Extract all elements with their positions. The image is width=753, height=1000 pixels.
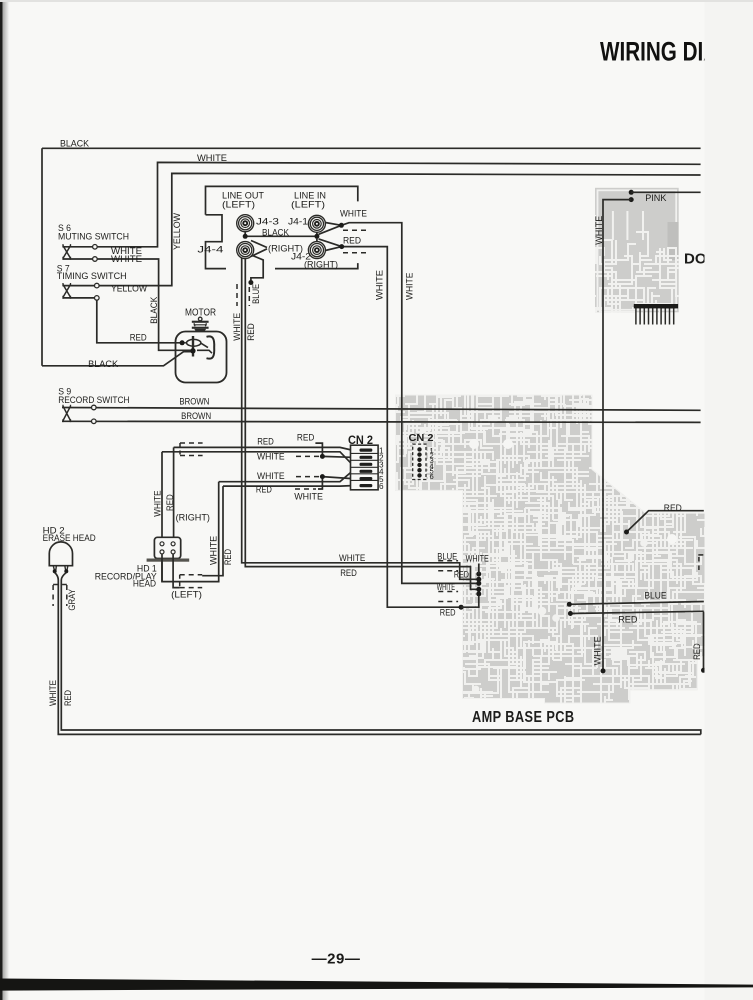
svg-text:YELLOW: YELLOW [172,213,182,250]
svg-text:J4-1: J4-1 [288,217,308,227]
svg-text:ERASE HEAD: ERASE HEAD [43,533,96,543]
svg-text:RED: RED [257,437,274,447]
svg-text:HEAD: HEAD [133,579,156,589]
svg-text:WHITE: WHITE [294,492,323,502]
svg-text:BROWN: BROWN [181,411,211,421]
svg-text:J4-4: J4-4 [197,245,223,255]
svg-text:RECORD SWITCH: RECORD SWITCH [58,395,129,405]
svg-text:YELLOW: YELLOW [111,284,147,294]
svg-text:RED: RED [692,643,702,660]
svg-text:WHITE: WHITE [339,553,365,563]
svg-text:BROWN: BROWN [179,397,209,407]
svg-text:WHITE: WHITE [209,536,219,565]
svg-text:WHITE: WHITE [232,313,242,341]
svg-text:BLACK: BLACK [262,228,290,238]
svg-text:CN 2: CN 2 [348,435,373,447]
svg-text:PINK: PINK [645,193,667,203]
svg-text:RED: RED [343,236,361,246]
svg-text:RED: RED [256,485,272,495]
svg-text:WHITE: WHITE [404,273,414,300]
svg-text:BLUE: BLUE [644,591,666,601]
svg-text:(LEFT): (LEFT) [222,200,255,210]
svg-text:WHITE: WHITE [593,636,603,665]
svg-text:CN 2: CN 2 [409,432,434,444]
svg-text:WHITE: WHITE [375,270,385,300]
svg-text:WHITE: WHITE [257,471,285,481]
svg-text:(RIGHT): (RIGHT) [304,260,338,270]
svg-text:RED: RED [440,608,456,618]
svg-text:RED: RED [664,503,682,513]
svg-text:BLUE: BLUE [437,552,457,562]
svg-text:RED: RED [165,494,175,511]
svg-text:WHITE: WHITE [197,153,227,163]
svg-text:RED: RED [340,568,357,578]
svg-text:BLACK: BLACK [60,139,90,149]
svg-text:WHITE: WHITE [594,216,604,245]
svg-text:6: 6 [379,482,384,491]
svg-text:(RIGHT): (RIGHT) [176,513,210,523]
svg-text:RED: RED [297,433,315,443]
svg-text:WHITE: WHITE [437,582,455,592]
svg-text:AMP BASE PCB: AMP BASE PCB [472,709,575,726]
svg-text:WHITE: WHITE [153,490,163,516]
svg-text:WHITE: WHITE [257,452,285,462]
svg-text:J4-3: J4-3 [256,217,279,227]
svg-text:WHITE: WHITE [466,553,489,563]
svg-text:6: 6 [430,472,434,481]
svg-text:MOTOR: MOTOR [185,307,216,319]
svg-text:RED: RED [223,549,233,565]
svg-text:TIMING SWITCH: TIMING SWITCH [57,271,127,281]
svg-text:RED: RED [130,333,147,343]
svg-text:WHITE: WHITE [48,680,58,706]
svg-text:(LEFT): (LEFT) [291,200,325,210]
svg-text:(LEFT): (LEFT) [171,589,202,599]
svg-text:WHITE: WHITE [111,254,142,264]
svg-text:BLUE: BLUE [251,284,261,304]
svg-text:BLACK: BLACK [149,296,159,324]
svg-text:MUTING SWITCH: MUTING SWITCH [58,232,129,242]
svg-text:RED: RED [63,690,73,706]
svg-text:—29—: —29— [312,951,361,968]
svg-text:RED: RED [246,323,256,341]
svg-text:BLACK: BLACK [88,359,119,369]
svg-text:RED: RED [618,615,638,625]
svg-text:WHITE: WHITE [340,209,367,219]
svg-text:GRAY: GRAY [67,589,77,611]
svg-text:RED: RED [454,570,469,580]
